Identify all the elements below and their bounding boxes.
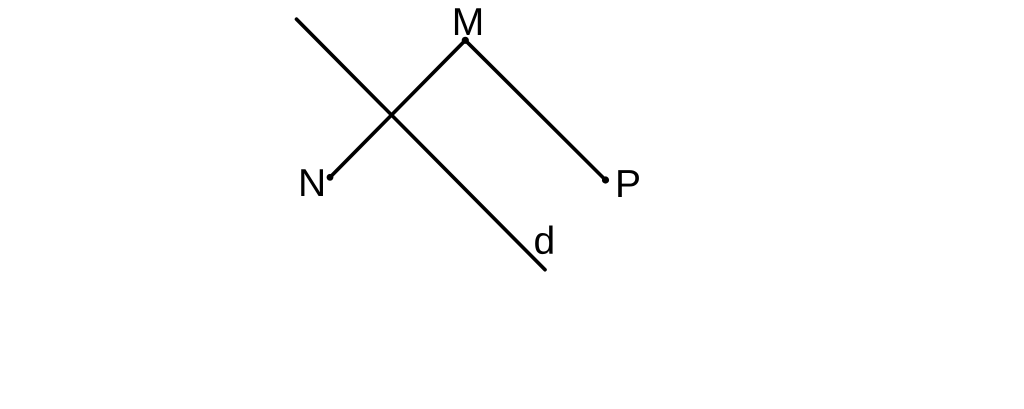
svg-text:N: N	[298, 162, 326, 205]
node N dot	[327, 174, 334, 181]
svg-text:d: d	[534, 220, 556, 263]
svg-text:P: P	[615, 163, 641, 206]
wire segment M-N	[330, 40, 465, 177]
node M dot	[462, 37, 469, 44]
node P dot	[602, 176, 609, 183]
svg-text:M: M	[452, 1, 485, 44]
wire segment M-P	[465, 40, 605, 180]
line d	[297, 19, 546, 270]
